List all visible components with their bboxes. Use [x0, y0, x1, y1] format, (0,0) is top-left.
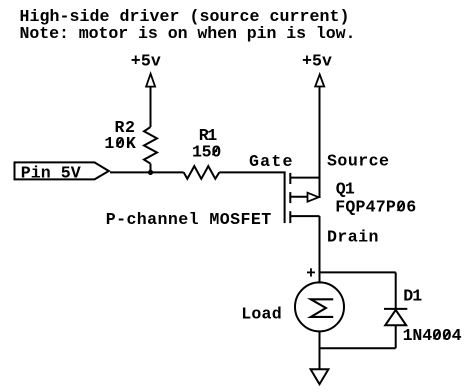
svg-text:10K: 10K [104, 134, 135, 153]
svg-text:+5v: +5v [302, 52, 332, 71]
svg-text:+5v: +5v [131, 52, 161, 71]
svg-text:Drain: Drain [327, 228, 379, 247]
svg-text:Source: Source [327, 152, 389, 171]
svg-text:150: 150 [192, 143, 221, 162]
svg-text:Load: Load [241, 305, 282, 324]
svg-text:Gate: Gate [249, 152, 293, 171]
svg-text:Q1: Q1 [336, 180, 355, 199]
svg-text:P-channel MOSFET: P-channel MOSFET [106, 210, 272, 229]
svg-text:High-side driver (source curre: High-side driver (source current) [20, 7, 350, 26]
svg-text:D1: D1 [403, 287, 422, 306]
svg-text:FQP47P06: FQP47P06 [335, 198, 416, 217]
svg-text:Note: motor is on when pin is: Note: motor is on when pin is low. [20, 24, 356, 43]
svg-text:Pin 5V: Pin 5V [21, 163, 81, 182]
svg-text:1N4004: 1N4004 [403, 326, 462, 345]
